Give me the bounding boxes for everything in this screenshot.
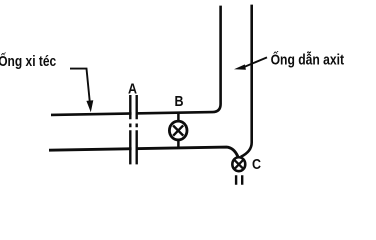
svg-text:B: B	[175, 93, 184, 109]
valve B body	[169, 121, 187, 140]
arrowhead of tank-pipe leader	[86, 100, 93, 112]
valve C outlet stubs	[236, 175, 242, 185]
label C	[252, 156, 261, 172]
component A right line	[135, 95, 137, 164]
label A	[128, 80, 137, 96]
wire right acid-pipe line curving down to valve C	[241, 5, 252, 157]
svg-text:Ống dẫn axit: Ống dẫn axit	[271, 52, 345, 68]
leader arrow to acid pipe	[244, 57, 268, 67]
component A pipe-break gap	[132, 110, 136, 153]
valve B cross	[173, 125, 183, 135]
leader arrow to tank pipe	[70, 69, 90, 104]
label Ống dẫn axit (acid pipe)	[271, 52, 345, 68]
svg-text:C: C	[252, 156, 261, 172]
valve C cross	[235, 160, 244, 169]
arrowhead of acid-pipe leader	[234, 64, 246, 69]
wire lower horizontal pipe curving down to valve C	[49, 147, 238, 157]
component A (flexible hose coupling) left line	[129, 95, 131, 164]
label B	[175, 93, 184, 109]
svg-text:A: A	[128, 80, 137, 96]
valve C body	[232, 157, 245, 171]
valve B stubs	[177, 112, 180, 150]
label Ống xi téc (tank pipe)	[0, 53, 56, 69]
svg-text:Ống xi téc: Ống xi téc	[0, 53, 56, 69]
wire upper horizontal pipe with corner up to left acid-pipe line	[51, 6, 221, 115]
